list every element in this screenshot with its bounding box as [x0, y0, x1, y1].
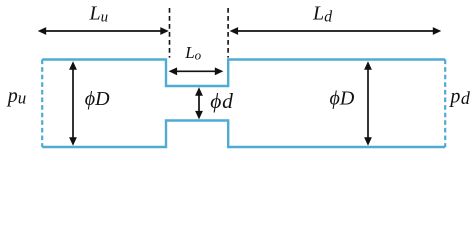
- pipe lower wall with orifice step: [42, 121, 445, 148]
- pipe outlet dashed line: [444, 60, 446, 148]
- dimension arrow phid (orifice): [195, 87, 203, 119]
- dimension arrow phiD left: [69, 61, 77, 145]
- svg-text:pu: pu: [6, 85, 27, 108]
- pipe upper wall with orifice step: [42, 60, 445, 87]
- svg-text:ϕd: ϕd: [210, 89, 233, 113]
- dimension arrow L_d: [230, 27, 442, 35]
- pipe inlet dashed line: [41, 60, 43, 148]
- svg-text:Lo: Lo: [184, 43, 201, 63]
- svg-text:Ld: Ld: [312, 3, 333, 26]
- dimension arrow L_u: [38, 27, 169, 35]
- dimension arrow L_o: [169, 67, 224, 75]
- svg-text:ϕD: ϕD: [85, 88, 110, 110]
- extension line right (dashed black): [227, 8, 229, 58]
- svg-text:Lu: Lu: [89, 3, 109, 26]
- svg-text:ϕD: ϕD: [330, 88, 355, 110]
- extension line left (dashed black): [169, 8, 171, 58]
- dimension arrow phiD right: [364, 61, 372, 145]
- svg-text:pd: pd: [448, 86, 471, 109]
